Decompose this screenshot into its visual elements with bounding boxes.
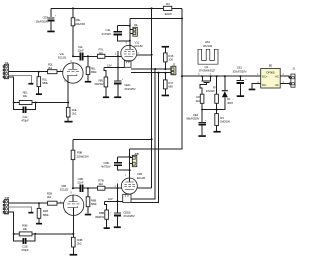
tube V1B triode	[63, 195, 83, 215]
wire R9L to triode anode node	[72, 26, 74, 57]
ground below CE2	[198, 135, 205, 137]
ground below R17	[162, 95, 169, 97]
node junction on rail at R9L	[72, 7, 74, 9]
ground above R16	[162, 46, 169, 48]
tube V1L base box	[124, 61, 131, 68]
wire heater upper to bottom tube	[131, 69, 155, 199]
ground below R4B	[70, 254, 78, 256]
resistor R3	[215, 114, 219, 126]
svg-text:DF06S: DF06S	[266, 70, 274, 74]
ground below CE1B	[114, 226, 121, 228]
wire B+ top rail	[51, 7, 163, 9]
node junction grid/g3 column B	[117, 187, 119, 189]
svg-text:12V: 12V	[107, 63, 112, 67]
wire bridge AC bottom to J1	[280, 83, 290, 85]
wire pentode B screen to B+ line	[137, 187, 151, 189]
svg-text:4n7/1kV: 4n7/1kV	[101, 165, 111, 169]
resistor R8L	[104, 68, 106, 78]
svg-text:330/1W: 330/1W	[95, 215, 104, 219]
svg-text:470pF: 470pF	[21, 118, 29, 122]
node junction cathode feedback	[67, 102, 69, 104]
svg-text:47uF/25V: 47uF/25V	[123, 214, 134, 218]
svg-text:220k/0.5W: 220k/0.5W	[77, 154, 89, 158]
ground below CE3	[47, 31, 54, 33]
node junction R16/J2	[164, 68, 166, 70]
node junction R6B top	[87, 187, 89, 189]
node junction on rail at screen line	[151, 7, 153, 9]
wire input shield to ground	[9, 75, 32, 83]
capacitor CE1B	[117, 201, 119, 212]
resistor R1B	[38, 203, 40, 208]
wire triode anode rail	[73, 55, 80, 57]
wire heater upper to J2	[131, 68, 171, 70]
svg-text:ECL82: ECL82	[58, 56, 67, 60]
node junction C3B bottom	[129, 169, 131, 171]
svg-text:330/1W: 330/1W	[94, 82, 103, 86]
ground below R3	[214, 131, 221, 133]
ground below CE1	[237, 95, 244, 97]
node junction heater upper	[154, 68, 156, 70]
resistor R7B	[98, 186, 105, 190]
capacitor C3L	[117, 25, 129, 27]
wire bridge DC- to ground	[252, 84, 261, 89]
svg-text:J0L: J0L	[134, 23, 139, 27]
svg-text:2k2: 2k2	[99, 182, 104, 186]
node junction anode/R9L	[72, 55, 74, 57]
resistor R2B	[48, 201, 57, 205]
wire R7L to pentode grid	[105, 55, 121, 57]
svg-text:22nF: 22nF	[78, 48, 84, 52]
svg-text:2k2: 2k2	[72, 112, 77, 116]
wire g3 column B	[117, 183, 119, 201]
node junction C3L bottom	[129, 40, 131, 42]
capacitor C2B	[80, 184, 82, 192]
node junction R7 bottom	[216, 109, 218, 111]
wire B+ top rail right of R4	[172, 7, 182, 9]
ground input B shield	[28, 212, 33, 214]
svg-text:12V: 12V	[108, 197, 113, 201]
resistor R2L	[48, 70, 57, 74]
diode D1	[224, 76, 226, 90]
node junction feedback B left	[13, 233, 15, 235]
node junction grid/g3 column	[117, 55, 119, 57]
resistor R8B	[104, 201, 106, 210]
wire OPT branch top	[130, 17, 182, 19]
svg-text:680k: 680k	[42, 81, 48, 85]
ground below CE1L	[114, 96, 121, 98]
svg-text:4n7/1kV: 4n7/1kV	[101, 32, 111, 36]
node junction anode/R9B	[72, 187, 74, 189]
svg-text:1k/2W: 1k/2W	[164, 12, 172, 16]
node junction C3B top	[129, 156, 131, 158]
capacitor C1L parallel loop	[14, 103, 23, 110]
ground below R6L	[85, 81, 91, 83]
resistor R7L	[98, 54, 105, 58]
node junction R1L top	[38, 71, 40, 73]
resistor R6L	[87, 56, 89, 67]
svg-text:ECL82: ECL82	[137, 176, 146, 180]
resistor R6B	[87, 188, 89, 197]
node junction screen line bottom	[151, 138, 153, 140]
capacitor C2L	[80, 53, 82, 61]
ground below R1B	[36, 223, 42, 225]
wire pentode cathode rail	[104, 67, 124, 69]
svg-text:47uF/25V: 47uF/25V	[124, 87, 135, 91]
svg-text:68uF/250V: 68uF/250V	[186, 116, 199, 120]
node junction R17/J2	[164, 72, 166, 74]
capacitor CE1	[239, 75, 241, 77]
svg-text:100: 100	[168, 58, 173, 62]
wire triode B cathode down	[72, 215, 74, 237]
svg-text:680k: 680k	[91, 202, 97, 206]
tube V1B base box	[123, 194, 131, 202]
svg-text:STN3N45K3Q27: STN3N45K3Q27	[199, 68, 216, 72]
svg-text:22nF: 22nF	[77, 181, 83, 185]
wire PSU main rail	[182, 75, 261, 77]
tube V1L triode	[63, 63, 83, 83]
svg-text:4007: 4007	[227, 101, 233, 105]
wire feedback rail B	[14, 233, 20, 235]
wire input B shield to ground	[9, 207, 32, 212]
svg-text:DC-: DC-	[262, 83, 267, 87]
svg-text:2k2: 2k2	[77, 242, 82, 246]
wire R2L to triode grid	[57, 71, 63, 73]
svg-text:R4: R4	[166, 2, 170, 6]
wire OPT B column	[129, 149, 131, 178]
svg-text:10k: 10k	[23, 94, 28, 98]
capacitor C1B parallel loop	[14, 234, 23, 241]
node junction OPT/B+	[181, 17, 183, 19]
ground below R8B	[104, 227, 110, 229]
wire input signal to R2L	[9, 71, 48, 73]
wire B+ main vertical	[130, 8, 182, 149]
resistor R0L	[19, 101, 32, 105]
svg-text:680: 680	[168, 85, 173, 89]
svg-text:2k2: 2k2	[99, 51, 104, 55]
wire R2B to triode grid	[57, 202, 64, 204]
wire pentode screen to B+ line	[137, 54, 152, 56]
svg-text:470pF: 470pF	[21, 248, 29, 252]
wire bridge AC top to J1	[280, 76, 290, 77]
tube V1L pentode	[121, 45, 137, 61]
svg-text:15uF/250V: 15uF/250V	[35, 19, 48, 23]
resistor R1L	[38, 72, 40, 77]
svg-text:2k2: 2k2	[47, 195, 52, 199]
resistor R16	[164, 48, 166, 53]
node junction CE1L	[117, 67, 119, 69]
resistor R0B	[19, 232, 32, 236]
wire triode cathode down	[67, 83, 69, 107]
node junction feedback B right	[34, 233, 36, 235]
ground below R1L	[36, 93, 42, 95]
svg-text:B0: B0	[269, 64, 273, 68]
svg-text:2k2: 2k2	[48, 66, 53, 70]
svg-text:HS-S03: HS-S03	[203, 44, 213, 48]
wire screen rail to R9B	[73, 138, 152, 140]
svg-text:680k: 680k	[43, 213, 49, 217]
wire heater lower to J2	[131, 72, 171, 74]
node junction feedback left	[13, 102, 15, 104]
resistor R17	[164, 73, 166, 80]
wire g3 column	[117, 51, 119, 68]
node junction screen line	[151, 54, 153, 56]
ground below R6B	[85, 214, 91, 216]
capacitor CE1L	[117, 68, 119, 81]
wire pentode B cathode rail	[104, 200, 122, 202]
ground below R8L	[103, 96, 109, 98]
capacitor CE3	[50, 8, 52, 17]
node junction feedback right	[35, 102, 37, 104]
tube V1B pentode	[121, 178, 137, 194]
resistor R4	[163, 6, 171, 10]
ground below R4L	[64, 121, 72, 123]
wire connector pin4 to feedback	[9, 77, 14, 103]
node junction C3L top	[129, 25, 131, 27]
node junction cathode feedback B	[72, 233, 74, 235]
resistor R4B	[72, 237, 76, 247]
svg-text:ECL82: ECL82	[60, 188, 69, 192]
wire connector B pin4 to feedback	[9, 212, 14, 234]
wire screen B+ vertical line	[151, 8, 153, 188]
resistor R9L	[72, 8, 74, 17]
wire input B signal to R2B	[9, 202, 48, 204]
wire OPT column	[129, 18, 131, 45]
resistor R4L	[66, 107, 70, 117]
wire triode B anode rail	[73, 187, 80, 189]
capacitor C3B	[118, 156, 130, 158]
ground below bridge	[249, 89, 256, 91]
svg-text:27k/1W: 27k/1W	[206, 89, 215, 93]
ground input shield	[28, 83, 33, 85]
svg-text:2k2: 2k2	[196, 99, 201, 103]
svg-text:1M0/1W: 1M0/1W	[220, 120, 230, 124]
node junction heater lower	[157, 72, 159, 74]
svg-text:680k: 680k	[91, 70, 97, 74]
node junction R6L top	[87, 55, 89, 57]
svg-text:100uF/250V: 100uF/250V	[232, 69, 246, 73]
node junction B+ / PSU rail	[181, 75, 183, 77]
node junction R1B top	[38, 202, 40, 204]
capacitor CE2	[201, 110, 203, 122]
node junction CE1B	[117, 200, 119, 202]
wire feedback rail	[14, 102, 20, 104]
svg-text:220k/0.5W: 220k/0.5W	[75, 22, 85, 26]
svg-text:10k: 10k	[23, 227, 28, 231]
node junction R2 bottom	[201, 109, 203, 111]
wire heater lower to bottom tube	[131, 73, 158, 203]
wire R7B to pentode B grid	[105, 187, 122, 189]
svg-text:ECL82: ECL82	[135, 44, 144, 48]
svg-text:DC+: DC+	[262, 74, 268, 78]
resistor R2	[200, 94, 204, 103]
resistor R9B	[72, 139, 74, 150]
